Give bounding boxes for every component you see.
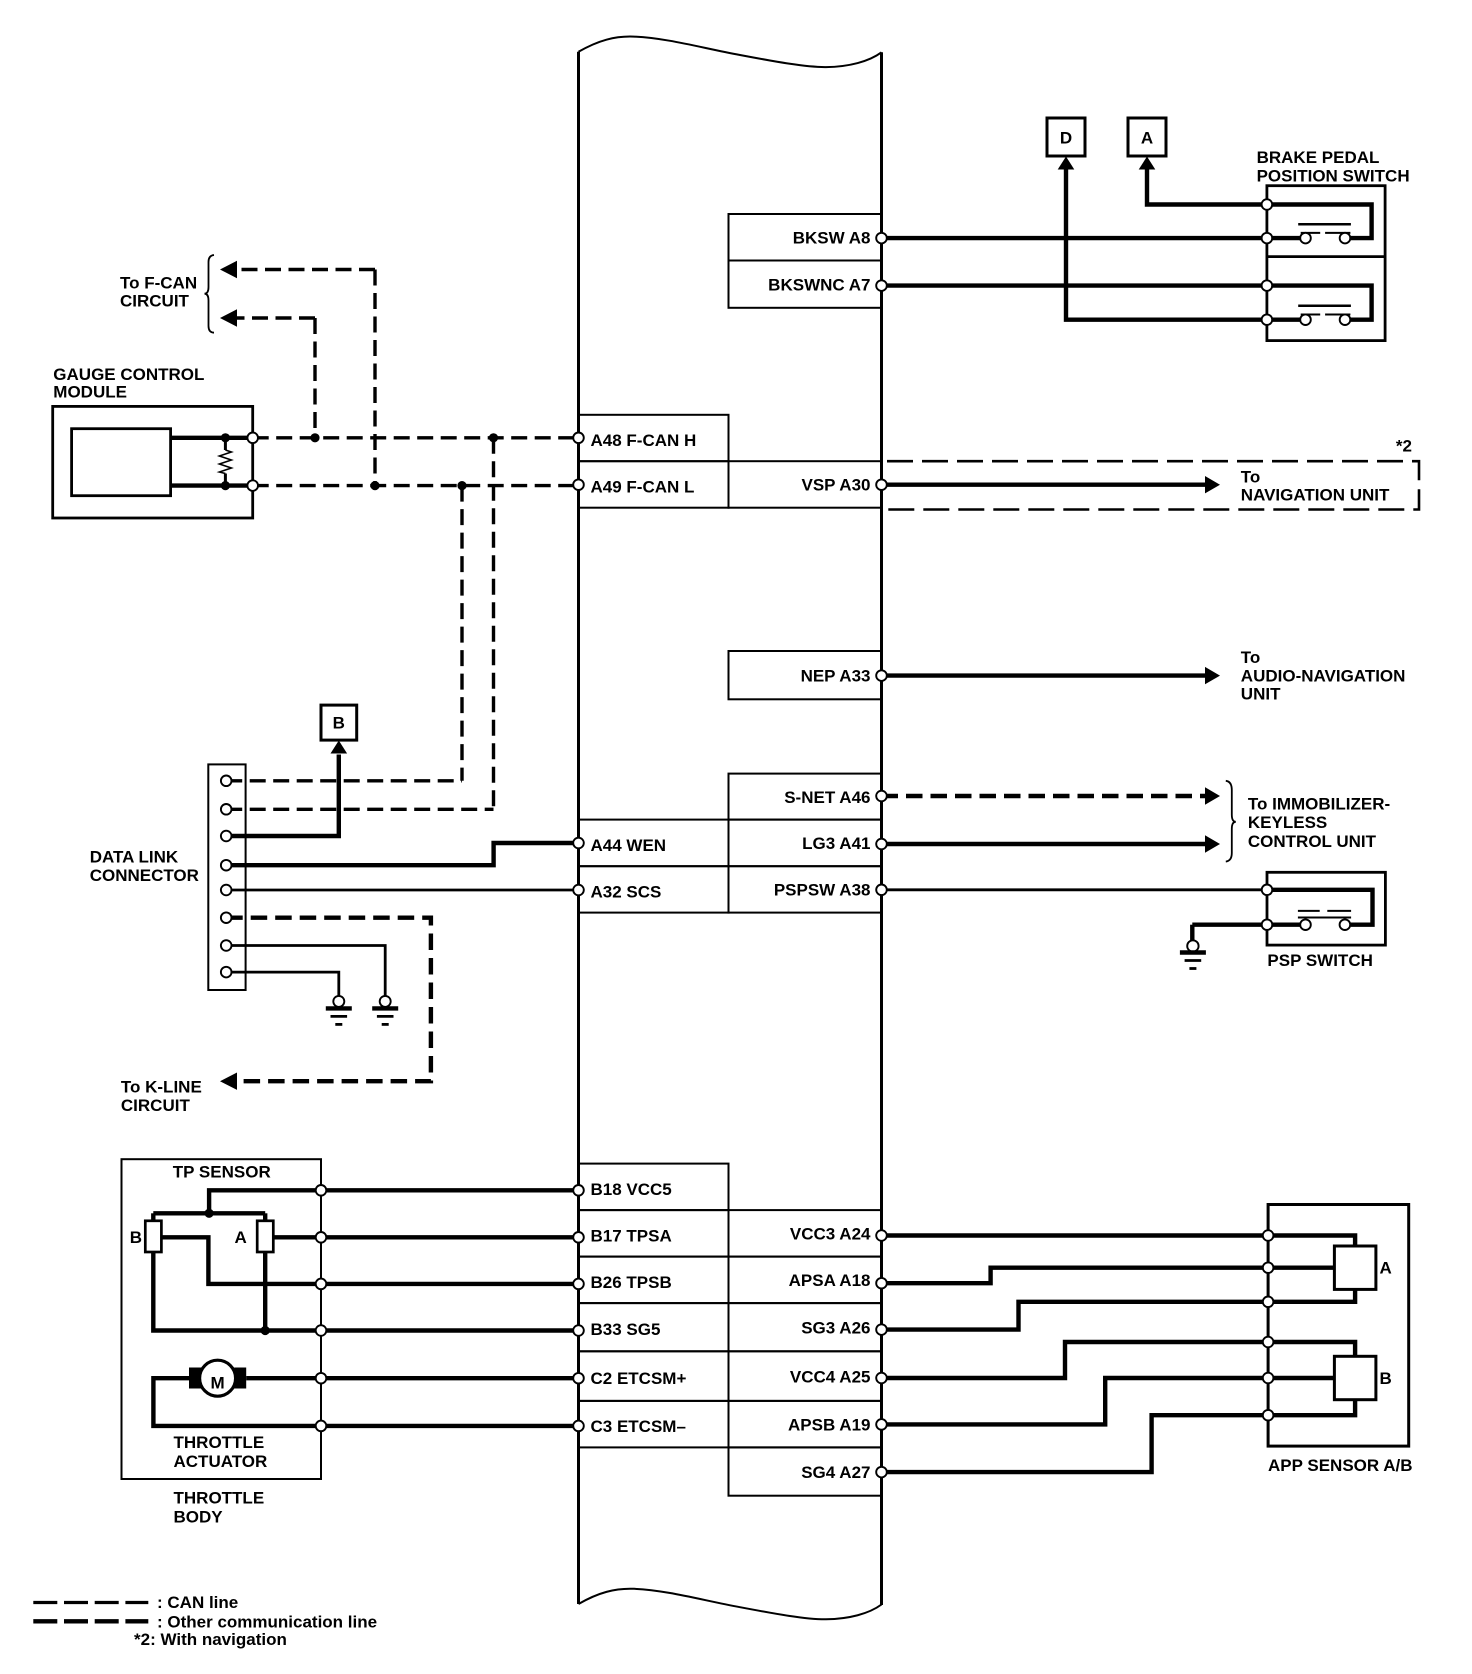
svg-text:VCC3 A24: VCC3 A24 xyxy=(790,1225,871,1244)
svg-text:C2 ETCSM+: C2 ETCSM+ xyxy=(591,1369,687,1388)
svg-text:B17 TPSA: B17 TPSA xyxy=(591,1226,672,1245)
svg-text:CIRCUIT: CIRCUIT xyxy=(121,1096,191,1115)
svg-text:To F-CAN: To F-CAN xyxy=(120,273,197,292)
svg-text:: Other communication line: : Other communication line xyxy=(157,1613,377,1632)
svg-text:APSA A18: APSA A18 xyxy=(789,1271,871,1290)
svg-text:To K-LINE: To K-LINE xyxy=(121,1078,202,1097)
svg-text:M: M xyxy=(211,1374,225,1393)
svg-text:B18 VCC5: B18 VCC5 xyxy=(591,1180,672,1199)
svg-text:A: A xyxy=(235,1228,247,1247)
svg-text:CONNECTOR: CONNECTOR xyxy=(90,866,199,885)
svg-text:KEYLESS: KEYLESS xyxy=(1248,813,1327,832)
svg-text:NEP A33: NEP A33 xyxy=(801,666,871,685)
svg-text:D: D xyxy=(1060,129,1072,148)
svg-text:C3 ETCSM–: C3 ETCSM– xyxy=(591,1417,686,1436)
svg-text:CIRCUIT: CIRCUIT xyxy=(120,292,190,311)
svg-text:A48 F-CAN H: A48 F-CAN H xyxy=(591,431,697,450)
svg-text:POSITION SWITCH: POSITION SWITCH xyxy=(1257,166,1410,185)
svg-text:B: B xyxy=(130,1228,142,1247)
svg-text:SG4 A27: SG4 A27 xyxy=(801,1463,870,1482)
svg-text:BKSWNC A7: BKSWNC A7 xyxy=(768,275,870,294)
svg-text:AUDIO-NAVIGATION: AUDIO-NAVIGATION xyxy=(1241,666,1406,685)
svg-text:BRAKE PEDAL: BRAKE PEDAL xyxy=(1257,148,1380,167)
svg-text:A: A xyxy=(1380,1259,1392,1278)
svg-text:A44 WEN: A44 WEN xyxy=(591,836,667,855)
svg-text:CONTROL UNIT: CONTROL UNIT xyxy=(1248,832,1377,851)
svg-text:APSB A19: APSB A19 xyxy=(788,1415,871,1434)
svg-text:GAUGE CONTROL: GAUGE CONTROL xyxy=(53,365,204,384)
svg-text:B: B xyxy=(1380,1369,1392,1388)
svg-text:LG3 A41: LG3 A41 xyxy=(802,834,870,853)
svg-text:To: To xyxy=(1241,467,1261,486)
svg-text:NAVIGATION UNIT: NAVIGATION UNIT xyxy=(1241,486,1390,505)
svg-text:BODY: BODY xyxy=(174,1507,224,1526)
svg-text:SG3 A26: SG3 A26 xyxy=(801,1318,870,1337)
svg-text:B33 SG5: B33 SG5 xyxy=(591,1320,661,1339)
svg-text:UNIT: UNIT xyxy=(1241,685,1281,704)
svg-text:VSP A30: VSP A30 xyxy=(802,476,871,495)
svg-text:ACTUATOR: ACTUATOR xyxy=(174,1452,268,1471)
svg-text:*2: With navigation: *2: With navigation xyxy=(134,1630,287,1649)
svg-text:APP SENSOR A/B: APP SENSOR A/B xyxy=(1268,1456,1413,1475)
svg-text:VCC4 A25: VCC4 A25 xyxy=(790,1367,871,1386)
svg-text:*2: *2 xyxy=(1396,437,1412,456)
svg-text:S-NET A46: S-NET A46 xyxy=(784,788,870,807)
svg-text:A: A xyxy=(1141,129,1153,148)
svg-text:THROTTLE: THROTTLE xyxy=(174,1489,265,1508)
svg-text:THROTTLE: THROTTLE xyxy=(174,1433,265,1452)
svg-text:DATA LINK: DATA LINK xyxy=(90,848,179,867)
svg-text:BKSW A8: BKSW A8 xyxy=(793,228,871,247)
svg-text:B: B xyxy=(333,714,345,733)
svg-text:TP SENSOR: TP SENSOR xyxy=(173,1163,271,1182)
svg-text:PSP SWITCH: PSP SWITCH xyxy=(1267,951,1372,970)
svg-text:B26 TPSB: B26 TPSB xyxy=(591,1273,672,1292)
svg-text:PSPSW A38: PSPSW A38 xyxy=(774,881,871,900)
svg-text:A49 F-CAN L: A49 F-CAN L xyxy=(591,477,695,496)
svg-text:MODULE: MODULE xyxy=(53,383,127,402)
svg-text:To: To xyxy=(1241,648,1261,667)
svg-text:: CAN line: : CAN line xyxy=(157,1593,238,1612)
svg-text:To IMMOBILIZER-: To IMMOBILIZER- xyxy=(1248,795,1390,814)
svg-text:A32 SCS: A32 SCS xyxy=(591,882,662,901)
